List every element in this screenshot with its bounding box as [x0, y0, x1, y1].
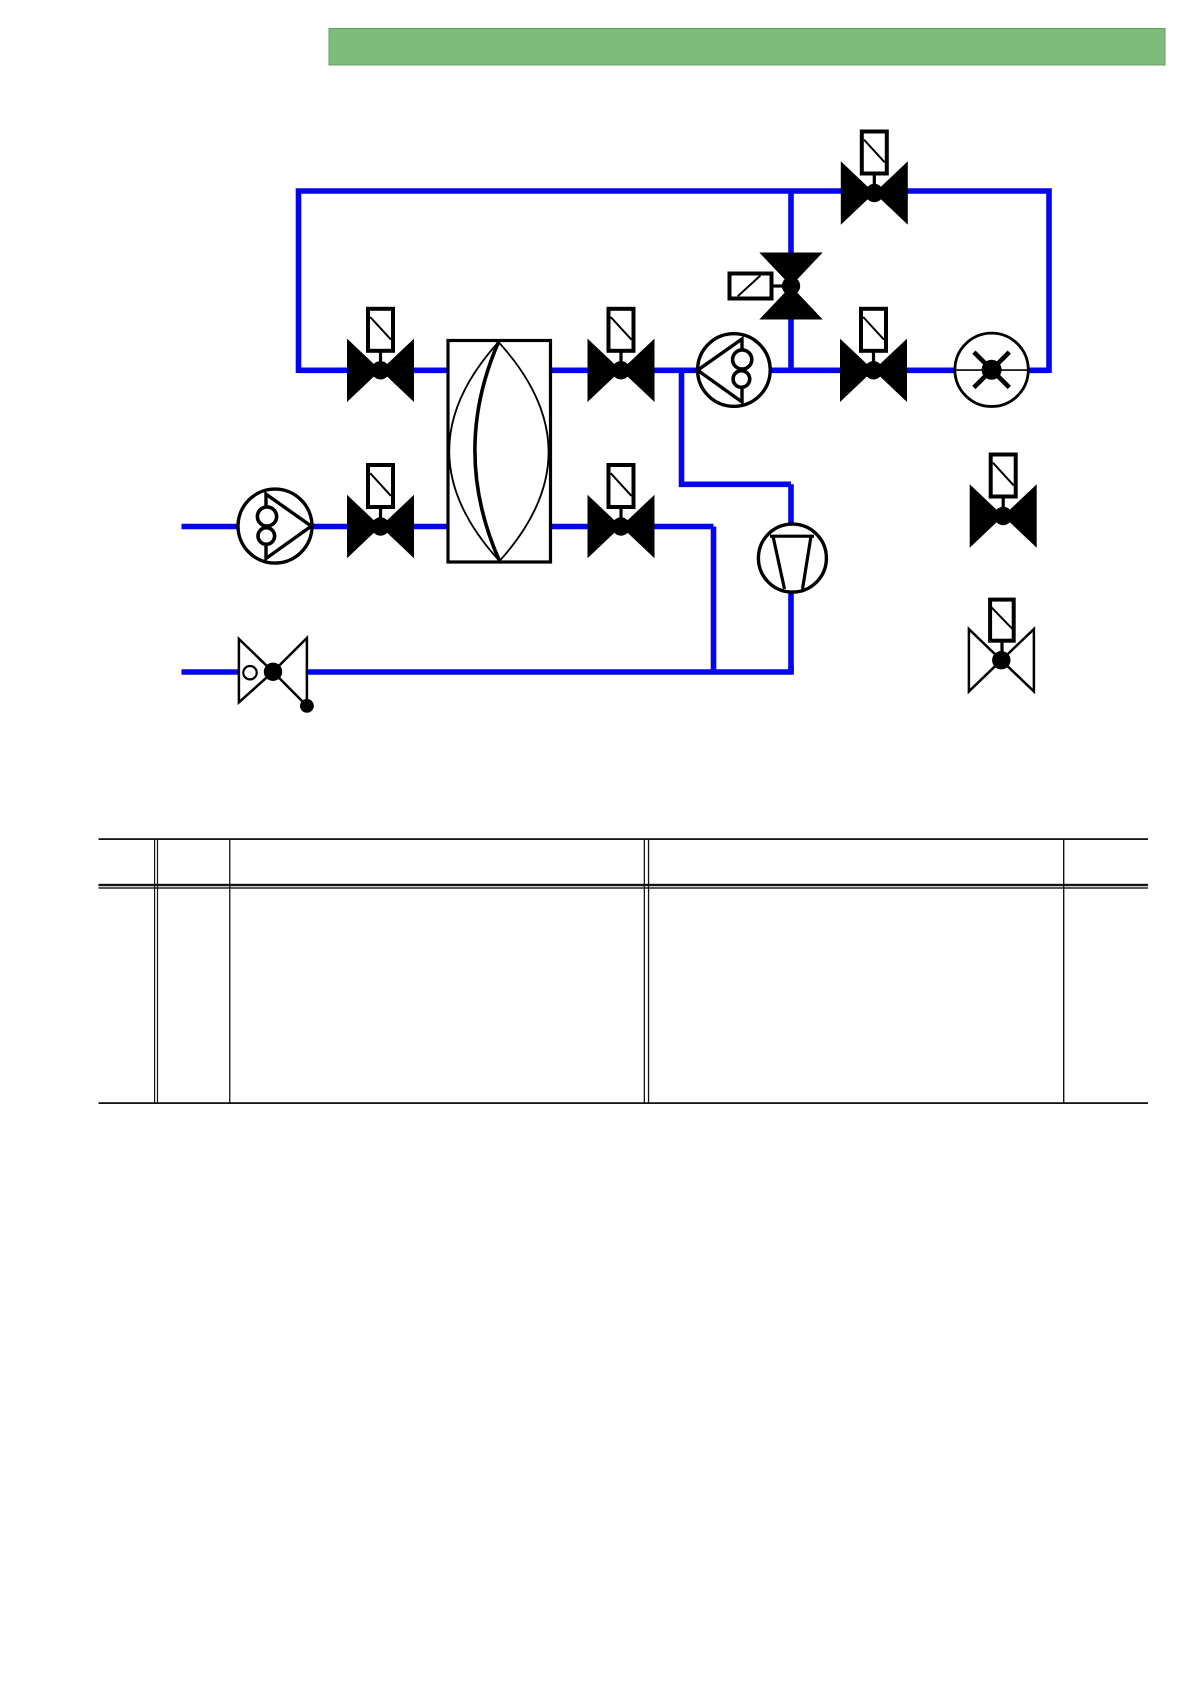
valve V8 isolated ball valve	[970, 455, 1037, 548]
wire top header loop	[299, 191, 1050, 373]
valve V3 supply far right	[840, 309, 907, 402]
valve V9 isolated outline valve	[969, 600, 1034, 692]
wire return drop	[711, 527, 717, 673]
wire pump riser	[788, 484, 794, 672]
heat exchanger W1	[448, 341, 551, 563]
wire middle return line	[182, 524, 714, 530]
control valve Y1 circle-cross	[955, 333, 1028, 406]
table rule vertical double left a	[154, 839, 155, 1103]
pump P2	[238, 489, 312, 563]
table rule header double upper	[99, 884, 1149, 886]
wire bypass riser	[788, 191, 794, 370]
table rule vertical double left b	[157, 839, 158, 1103]
wire main supply line	[299, 367, 1050, 373]
table rule vertical right	[1063, 839, 1064, 1103]
valve V1 supply left	[347, 309, 414, 402]
expansion device N1 cone in circle	[758, 524, 826, 592]
table rule bottom horizontal	[99, 1102, 1149, 1104]
valve V5 return right	[588, 465, 655, 558]
valve V7 top motorized	[841, 132, 908, 225]
table rule vertical double mid a	[644, 839, 645, 1103]
table rule header double lower	[99, 887, 1149, 888]
wire tee drop	[682, 370, 792, 484]
wire bottom line	[182, 666, 792, 672]
safety valve F1	[239, 638, 314, 713]
table rule top horizontal	[99, 838, 1149, 840]
table rule vertical double mid b	[648, 839, 649, 1103]
valve V4 return left	[347, 465, 414, 558]
table rule vertical col2	[229, 839, 230, 1103]
green title bar	[329, 29, 1165, 66]
valve V2 supply right	[588, 309, 655, 402]
pump P1	[698, 334, 771, 407]
valve V6 bypass with horizontal actuator	[730, 253, 823, 320]
